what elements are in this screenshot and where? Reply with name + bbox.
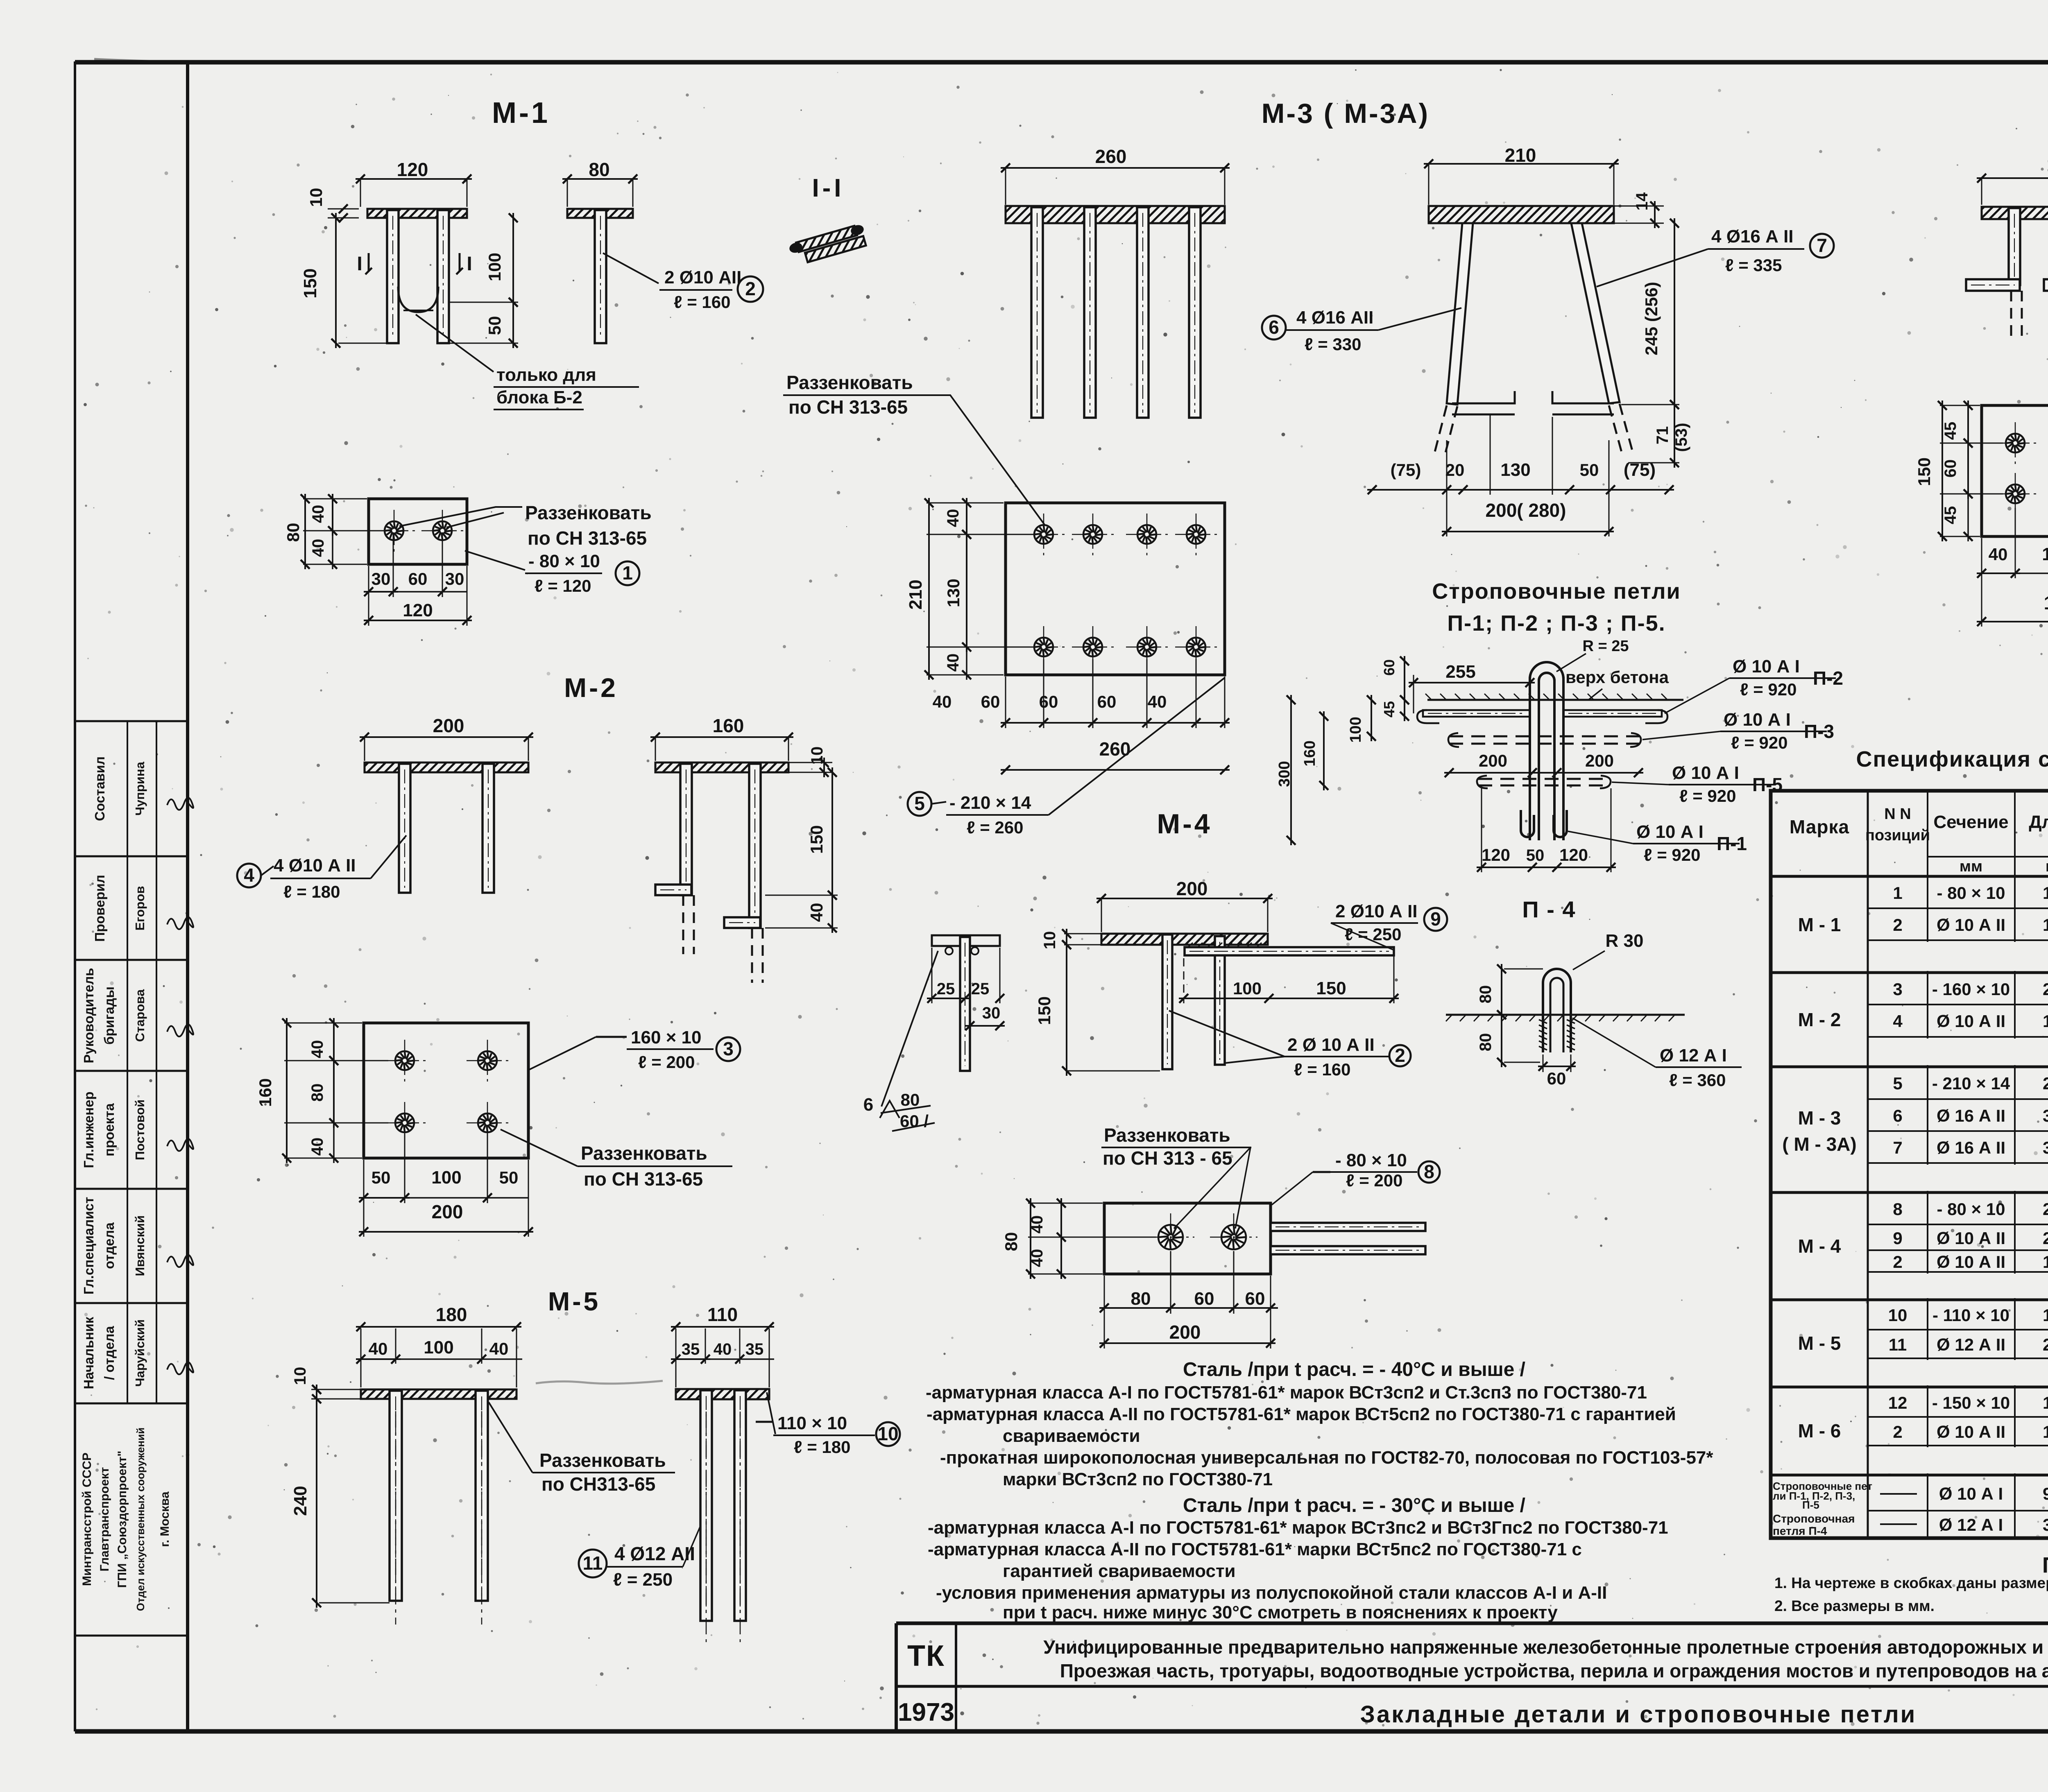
svg-text:60: 60 bbox=[1381, 659, 1398, 676]
svg-text:40: 40 bbox=[944, 509, 962, 527]
svg-text:40: 40 bbox=[933, 692, 952, 711]
svg-text:40: 40 bbox=[309, 539, 327, 557]
svg-text:ℓ = 335: ℓ = 335 bbox=[1725, 256, 1782, 275]
svg-text:12: 12 bbox=[1888, 1393, 1908, 1412]
svg-text:- 210 × 14: - 210 × 14 bbox=[1932, 1074, 2010, 1093]
svg-text:М - 3: М - 3 bbox=[1798, 1107, 1841, 1129]
svg-text:11: 11 bbox=[1889, 1335, 1907, 1354]
svg-text:Гл.специалист: Гл.специалист bbox=[81, 1197, 96, 1295]
svg-text:Ø 16 А II: Ø 16 А II bbox=[1937, 1106, 2005, 1125]
svg-text:1: 1 bbox=[1893, 883, 1902, 903]
svg-text:ℓ = 330: ℓ = 330 bbox=[1305, 335, 1361, 354]
svg-text:Раззенковать: Раззенковать bbox=[525, 502, 652, 523]
svg-text:25: 25 bbox=[971, 980, 990, 998]
svg-text:Сечение: Сечение bbox=[1933, 812, 2008, 832]
svg-text:60: 60 bbox=[408, 569, 428, 588]
svg-text:- 210 × 14: - 210 × 14 bbox=[949, 793, 1031, 813]
svg-text:80: 80 bbox=[283, 523, 303, 542]
svg-text:60: 60 bbox=[1942, 459, 1960, 478]
svg-text:Ø 12 А I: Ø 12 А I bbox=[1660, 1045, 1727, 1066]
svg-text:200: 200 bbox=[2043, 1199, 2048, 1219]
svg-text:2: 2 bbox=[1893, 1252, 1902, 1272]
svg-text:Проверил: Проверил bbox=[92, 875, 107, 942]
svg-text:160: 160 bbox=[2043, 915, 2048, 934]
svg-text:9: 9 bbox=[1430, 908, 1441, 930]
svg-text:40: 40 bbox=[1148, 692, 1167, 711]
svg-text:6: 6 bbox=[1893, 1106, 1902, 1125]
svg-text:100: 100 bbox=[2042, 544, 2048, 564]
svg-text:Раззенковать: Раззенковать bbox=[581, 1143, 707, 1164]
svg-text:R = 25: R = 25 bbox=[1582, 638, 1629, 655]
svg-text:Ø 10 А I: Ø 10 А I bbox=[1672, 763, 1739, 783]
svg-text:6: 6 bbox=[1269, 317, 1279, 338]
svg-text:Ø 10 А II: Ø 10 А II bbox=[1937, 915, 2005, 934]
svg-text:I: I bbox=[467, 253, 472, 275]
svg-text:бригады: бригады bbox=[102, 987, 117, 1045]
svg-text:40: 40 bbox=[807, 903, 826, 922]
svg-text:60: 60 bbox=[1097, 692, 1117, 711]
svg-text:Раззенковать: Раззенковать bbox=[539, 1450, 666, 1471]
svg-text:160: 160 bbox=[2043, 1252, 2048, 1272]
svg-text:330: 330 bbox=[2043, 1106, 2048, 1125]
svg-text:Строповочные петли: Строповочные петли bbox=[1432, 579, 1681, 604]
svg-text:50: 50 bbox=[499, 1168, 519, 1187]
svg-text:150: 150 bbox=[300, 268, 320, 298]
svg-text:150: 150 bbox=[807, 825, 826, 854]
svg-text:200: 200 bbox=[433, 715, 464, 736]
svg-text:мм: мм bbox=[1960, 858, 1982, 875]
svg-text:25: 25 bbox=[937, 980, 955, 998]
svg-text:40: 40 bbox=[714, 1340, 732, 1358]
svg-text:50: 50 bbox=[485, 316, 504, 335]
svg-text:Чуприна: Чуприна bbox=[133, 761, 147, 815]
svg-text:ℓ = 120: ℓ = 120 bbox=[535, 576, 591, 595]
svg-text:60: 60 bbox=[1194, 1289, 1214, 1309]
svg-text:160: 160 bbox=[256, 1078, 275, 1107]
svg-text:80: 80 bbox=[589, 159, 609, 180]
svg-text:200: 200 bbox=[1479, 751, 1507, 770]
svg-text:(75): (75) bbox=[1624, 460, 1656, 480]
svg-text:П - 4: П - 4 bbox=[1522, 896, 1576, 922]
svg-text:R 30: R 30 bbox=[1606, 931, 1644, 951]
svg-text:М - 5: М - 5 bbox=[1798, 1333, 1841, 1354]
svg-text:петля П-4: петля П-4 bbox=[1773, 1525, 1827, 1537]
svg-text:180: 180 bbox=[2043, 1393, 2048, 1412]
svg-text:60: 60 bbox=[1547, 1069, 1566, 1088]
svg-text:Ø 10 А II: Ø 10 А II bbox=[1937, 1229, 2005, 1248]
svg-text:М - 4: М - 4 bbox=[1798, 1235, 1841, 1257]
svg-text:50: 50 bbox=[1526, 846, 1545, 864]
svg-text:100: 100 bbox=[431, 1168, 461, 1188]
svg-text:45: 45 bbox=[1942, 422, 1960, 440]
svg-text:- 80 × 10: - 80 × 10 bbox=[1937, 1199, 2005, 1219]
svg-text:ГПИ „Союздорпроект": ГПИ „Союздорпроект" bbox=[116, 1450, 129, 1588]
svg-text:50: 50 bbox=[1580, 460, 1599, 480]
svg-text:71: 71 bbox=[1654, 426, 1672, 445]
svg-text:1: 1 bbox=[622, 562, 633, 584]
svg-text:10: 10 bbox=[306, 188, 326, 207]
svg-text:60 /: 60 / bbox=[900, 1111, 929, 1131]
svg-text:при t расч. ниже минус 30°: при t расч. ниже минус 30°С смотреть в п… bbox=[1003, 1602, 1558, 1622]
svg-text:35: 35 bbox=[682, 1340, 700, 1358]
svg-text:Егоров: Егоров bbox=[133, 886, 147, 930]
svg-text:- 80 × 10: - 80 × 10 bbox=[1335, 1150, 1407, 1170]
svg-text:Отдел искусственных сооружений: Отдел искусственных сооружений bbox=[134, 1428, 147, 1611]
svg-text:10: 10 bbox=[1888, 1306, 1908, 1325]
svg-text:1973: 1973 bbox=[898, 1698, 954, 1726]
svg-text:4: 4 bbox=[244, 864, 254, 886]
svg-text:ℓ = 160: ℓ = 160 bbox=[1294, 1060, 1350, 1079]
svg-text:по СН 313-65: по СН 313-65 bbox=[528, 527, 647, 549]
svg-text:Начальник: Начальник bbox=[81, 1317, 96, 1389]
svg-text:-арматурная класса А-I по: -арматурная класса А-I по ГОСТ5781-61* м… bbox=[928, 1518, 1668, 1538]
svg-text:только для: только для bbox=[496, 365, 596, 385]
svg-text:Унифицированные предварительн: Унифицированные предварительно напряженн… bbox=[1043, 1636, 2048, 1658]
svg-text:14: 14 bbox=[1633, 192, 1651, 210]
svg-text:Ø 10 А I: Ø 10 А I bbox=[1939, 1484, 2003, 1503]
svg-text:Строповочная: Строповочная bbox=[1773, 1512, 1855, 1525]
svg-text:Ø 10 А II: Ø 10 А II bbox=[1937, 1011, 2005, 1031]
svg-text:-условия применения арматуры: -условия применения арматуры из полуспок… bbox=[936, 1583, 1607, 1603]
svg-text:3: 3 bbox=[1893, 980, 1902, 999]
svg-text:мм: мм bbox=[2046, 858, 2048, 875]
svg-text:-арматурная класса А-I по: -арматурная класса А-I по ГОСТ5781-61* м… bbox=[926, 1382, 1647, 1403]
svg-text:200: 200 bbox=[1169, 1321, 1201, 1343]
svg-text:-прокатная широкополосная ун: -прокатная широкополосная универсальная … bbox=[940, 1448, 1713, 1468]
svg-text:120: 120 bbox=[397, 159, 428, 180]
svg-text:210: 210 bbox=[1505, 145, 1536, 166]
svg-text:ℓ = 250: ℓ = 250 bbox=[613, 1570, 673, 1590]
svg-text:2: 2 bbox=[1893, 915, 1902, 934]
svg-text:Ø 12 А II: Ø 12 А II bbox=[1937, 1335, 2005, 1354]
svg-text:Сталь /при t расч. = - 30°С: Сталь /при t расч. = - 30°С и выше / bbox=[1183, 1495, 1525, 1516]
svg-text:ℓ = 920: ℓ = 920 bbox=[1731, 733, 1787, 752]
svg-text:240: 240 bbox=[290, 1486, 310, 1516]
svg-text:180: 180 bbox=[2044, 592, 2048, 613]
svg-text:35: 35 bbox=[745, 1340, 764, 1358]
svg-text:блока Б-2: блока Б-2 bbox=[496, 387, 582, 407]
svg-text:200: 200 bbox=[1176, 878, 1208, 899]
svg-text:I-I: I-I bbox=[812, 174, 844, 202]
svg-text:45: 45 bbox=[1942, 506, 1960, 525]
svg-text:/ отдела: / отдела bbox=[102, 1326, 117, 1380]
svg-text:40: 40 bbox=[944, 654, 962, 672]
svg-text:40: 40 bbox=[489, 1339, 509, 1358]
svg-text:по СН313-65: по СН313-65 bbox=[541, 1473, 655, 1495]
svg-text:Главтранспроект: Главтранспроект bbox=[98, 1467, 111, 1572]
svg-text:150: 150 bbox=[1316, 978, 1346, 998]
svg-text:ℓ = 160: ℓ = 160 bbox=[674, 292, 730, 312]
svg-text:335: 335 bbox=[2043, 1138, 2048, 1157]
svg-text:М - 6: М - 6 bbox=[1798, 1420, 1841, 1441]
svg-text:8: 8 bbox=[1893, 1199, 1902, 1219]
svg-text:Спецификация стали на о: Спецификация стали на один элемент bbox=[1856, 747, 2048, 772]
svg-text:по СН 313-65: по СН 313-65 bbox=[584, 1168, 703, 1190]
svg-text:60: 60 bbox=[981, 692, 1000, 711]
svg-text:11: 11 bbox=[583, 1552, 603, 1574]
svg-text:110 × 10: 110 × 10 bbox=[777, 1413, 847, 1433]
svg-text:10: 10 bbox=[877, 1423, 898, 1444]
svg-text:-арматурная класса А-II по: -арматурная класса А-II по ГОСТ5781-61* … bbox=[927, 1404, 1676, 1424]
svg-text:4 Ø16 А II: 4 Ø16 А II bbox=[1711, 226, 1794, 247]
svg-text:верх бетона: верх бетона bbox=[1565, 667, 1669, 687]
svg-text:Руководитель: Руководитель bbox=[81, 968, 96, 1063]
svg-text:2. Все размеры в мм.: 2. Все размеры в мм. bbox=[1774, 1597, 1935, 1614]
svg-text:200: 200 bbox=[2043, 980, 2048, 999]
svg-text:110: 110 bbox=[707, 1304, 738, 1325]
svg-text:М - 2: М - 2 bbox=[1798, 1009, 1841, 1030]
svg-text:210: 210 bbox=[906, 579, 926, 609]
svg-text:260: 260 bbox=[1095, 146, 1127, 167]
svg-text:П-1; П-2 ; П-3 ; П-5.: П-1; П-2 ; П-3 ; П-5. bbox=[1447, 611, 1665, 636]
svg-text:Раззенковать: Раззенковать bbox=[1104, 1125, 1230, 1146]
svg-text:1. На чертеже в скобках д: 1. На чертеже в скобках даны размеры дет… bbox=[1774, 1575, 2048, 1591]
svg-text:100: 100 bbox=[485, 253, 504, 281]
svg-text:- 150 × 10: - 150 × 10 bbox=[1932, 1393, 2010, 1412]
svg-text:Закладные детали и стропо: Закладные детали и строповочные петли bbox=[1360, 1701, 1917, 1728]
svg-text:160: 160 bbox=[713, 715, 744, 736]
svg-text:10: 10 bbox=[291, 1367, 309, 1385]
svg-text:920: 920 bbox=[2043, 1484, 2048, 1503]
svg-text:80: 80 bbox=[901, 1090, 920, 1109]
svg-text:180: 180 bbox=[2047, 154, 2048, 175]
svg-text:2: 2 bbox=[1395, 1045, 1405, 1066]
svg-text:Ø 10 А II: Ø 10 А II bbox=[1937, 1422, 2005, 1441]
svg-text:160: 160 bbox=[1301, 740, 1319, 766]
svg-text:40: 40 bbox=[1989, 545, 2008, 564]
svg-text:360: 360 bbox=[2043, 1515, 2048, 1534]
svg-text:Сталь /при t расч. = - 40°С: Сталь /при t расч. = - 40°С и выше / bbox=[1183, 1359, 1525, 1380]
svg-text:Гл.инженер: Гл.инженер bbox=[81, 1091, 96, 1168]
svg-text:Ø 12 А I: Ø 12 А I bbox=[1939, 1515, 2003, 1534]
svg-text:80: 80 bbox=[1477, 985, 1495, 1004]
svg-text:Длина: Длина bbox=[2029, 812, 2048, 832]
svg-text:Старова: Старова bbox=[133, 989, 147, 1042]
svg-text:Проезжая часть, тротуары,: Проезжая часть, тротуары, водоотводные у… bbox=[1060, 1660, 2048, 1681]
svg-text:Примечания: Примечания bbox=[2042, 1553, 2048, 1577]
svg-text:6: 6 bbox=[863, 1095, 873, 1115]
svg-text:ℓ = 180: ℓ = 180 bbox=[794, 1437, 850, 1457]
svg-text:3: 3 bbox=[723, 1038, 734, 1059]
svg-text:ℓ = 180: ℓ = 180 bbox=[283, 882, 340, 901]
svg-text:( М - 3А): ( М - 3А) bbox=[1782, 1134, 1856, 1155]
svg-text:Ø 10 А I: Ø 10 А I bbox=[1724, 710, 1791, 730]
svg-text:80: 80 bbox=[1477, 1033, 1495, 1052]
svg-text:М-4: М-4 bbox=[1157, 808, 1212, 839]
svg-text:260: 260 bbox=[1099, 738, 1131, 760]
svg-text:120: 120 bbox=[1482, 845, 1510, 864]
svg-text:П-2: П-2 bbox=[1813, 667, 1843, 689]
svg-text:(75): (75) bbox=[1391, 460, 1421, 480]
svg-text:160 × 10: 160 × 10 bbox=[631, 1027, 702, 1048]
svg-text:7: 7 bbox=[1817, 235, 1827, 256]
svg-text:4: 4 bbox=[1893, 1011, 1903, 1031]
svg-text:М-5: М-5 bbox=[548, 1287, 600, 1316]
svg-text:20: 20 bbox=[1445, 460, 1465, 480]
svg-text:200: 200 bbox=[432, 1201, 463, 1222]
svg-text:40: 40 bbox=[309, 505, 327, 523]
svg-text:30: 30 bbox=[445, 569, 464, 588]
svg-text:8: 8 bbox=[1424, 1161, 1434, 1182]
svg-text:позиций: позиций bbox=[1865, 827, 1930, 844]
svg-text:ℓ = 920: ℓ = 920 bbox=[1679, 786, 1736, 805]
svg-text:180: 180 bbox=[2043, 1011, 2048, 1031]
svg-text:- 110 × 10: - 110 × 10 bbox=[1932, 1306, 2009, 1325]
svg-text:160: 160 bbox=[2043, 1422, 2048, 1441]
svg-text:130: 130 bbox=[1500, 460, 1530, 480]
svg-text:130: 130 bbox=[944, 579, 963, 607]
svg-text:I: I bbox=[357, 253, 362, 275]
svg-text:Марка: Марка bbox=[1790, 816, 1849, 837]
svg-text:9: 9 bbox=[1893, 1229, 1902, 1248]
svg-text:250: 250 bbox=[2043, 1229, 2048, 1248]
svg-text:Чаруйский: Чаруйский bbox=[133, 1319, 147, 1387]
svg-text:Ø 10 А I: Ø 10 А I bbox=[1733, 656, 1800, 677]
svg-text:4 Ø16 АII: 4 Ø16 АII bbox=[1296, 308, 1373, 328]
svg-text:180: 180 bbox=[2043, 1306, 2048, 1325]
svg-text:30: 30 bbox=[372, 569, 391, 588]
svg-text:150: 150 bbox=[1035, 996, 1054, 1025]
svg-text:Ø 10 А I: Ø 10 А I bbox=[1636, 822, 1704, 842]
svg-text:- 80 × 10: - 80 × 10 bbox=[1937, 883, 2005, 903]
svg-text:Составил: Составил bbox=[92, 756, 107, 821]
svg-text:2 Ø10 АII: 2 Ø10 АII bbox=[664, 267, 741, 287]
svg-text:245 (256): 245 (256) bbox=[1642, 282, 1661, 355]
svg-text:80: 80 bbox=[308, 1084, 326, 1102]
svg-text:4 Ø12 АII: 4 Ø12 АII bbox=[614, 1543, 695, 1564]
svg-text:ℓ = 920: ℓ = 920 bbox=[1740, 680, 1797, 699]
svg-text:120: 120 bbox=[1559, 845, 1588, 864]
svg-text:г. Москва: г. Москва bbox=[158, 1491, 172, 1547]
svg-text:ℓ = 260: ℓ = 260 bbox=[967, 818, 1023, 837]
svg-text:Ø 16 А II: Ø 16 А II bbox=[1937, 1138, 2005, 1157]
svg-text:120: 120 bbox=[2043, 883, 2048, 903]
svg-text:2: 2 bbox=[1893, 1422, 1902, 1441]
svg-text:по СН 313-65: по СН 313-65 bbox=[788, 396, 908, 418]
svg-text:180: 180 bbox=[436, 1304, 467, 1325]
svg-text:- 80 × 10: - 80 × 10 bbox=[528, 551, 600, 571]
svg-text:марки ВСт3сп2 по ГОСТ380-71: марки ВСт3сп2 по ГОСТ380-71 bbox=[1003, 1469, 1273, 1489]
svg-text:30: 30 bbox=[982, 1004, 1001, 1022]
svg-text:200( 280): 200( 280) bbox=[1486, 500, 1566, 521]
svg-text:120: 120 bbox=[403, 600, 433, 620]
svg-text:255: 255 bbox=[1445, 662, 1475, 682]
svg-text:10: 10 bbox=[1041, 931, 1059, 950]
svg-text:отдела: отдела bbox=[102, 1222, 117, 1269]
svg-text:Раззенковать: Раззенковать bbox=[786, 372, 913, 393]
svg-text:4 Ø10 А II: 4 Ø10 А II bbox=[274, 855, 356, 876]
svg-text:П-1: П-1 bbox=[1717, 833, 1747, 854]
svg-text:Минтрансстрой СССР: Минтрансстрой СССР bbox=[80, 1453, 94, 1586]
svg-text:свариваемости: свариваемости bbox=[1003, 1426, 1140, 1446]
svg-text:М - 1: М - 1 bbox=[1798, 914, 1841, 935]
svg-text:П-5: П-5 bbox=[1802, 1499, 1819, 1511]
svg-text:Ивянский: Ивянский bbox=[133, 1215, 147, 1276]
svg-text:40: 40 bbox=[308, 1138, 326, 1156]
svg-text:проекта: проекта bbox=[102, 1103, 117, 1156]
svg-text:П-3: П-3 bbox=[1804, 721, 1834, 742]
svg-text:250: 250 bbox=[2043, 1335, 2048, 1354]
svg-text:Постовой: Постовой bbox=[133, 1100, 147, 1160]
svg-text:ℓ = 200: ℓ = 200 bbox=[638, 1052, 695, 1072]
svg-text:ℓ = 360: ℓ = 360 bbox=[1669, 1070, 1726, 1090]
svg-text:5: 5 bbox=[914, 793, 925, 814]
svg-text:Ø 10 А II: Ø 10 А II bbox=[1937, 1252, 2005, 1272]
svg-text:50: 50 bbox=[372, 1168, 391, 1187]
svg-text:60: 60 bbox=[1039, 692, 1058, 711]
svg-text:ТК: ТК bbox=[907, 1640, 945, 1672]
svg-text:100: 100 bbox=[1347, 717, 1364, 742]
svg-text:М-1: М-1 bbox=[492, 97, 550, 129]
svg-text:40: 40 bbox=[369, 1339, 388, 1358]
svg-text:60: 60 bbox=[1245, 1289, 1265, 1309]
svg-text:2 Ø 10 А II: 2 Ø 10 А II bbox=[1287, 1035, 1375, 1055]
svg-text:ℓ = 920: ℓ = 920 bbox=[1644, 845, 1700, 864]
svg-text:100: 100 bbox=[1233, 979, 1262, 998]
svg-text:- 160 × 10: - 160 × 10 bbox=[1932, 980, 2010, 999]
svg-text:80: 80 bbox=[1001, 1232, 1021, 1251]
svg-text:260: 260 bbox=[2043, 1074, 2048, 1093]
svg-text:40: 40 bbox=[308, 1040, 326, 1059]
svg-text:по СН 313 - 65: по СН 313 - 65 bbox=[1103, 1147, 1232, 1169]
svg-text:М-3 ( М-3А): М-3 ( М-3А) bbox=[1262, 98, 1430, 129]
svg-text:5: 5 bbox=[1893, 1074, 1902, 1093]
svg-text:-арматурная класса А-II по: -арматурная класса А-II по ГОСТ5781-61* … bbox=[928, 1539, 1582, 1559]
svg-text:150: 150 bbox=[1914, 457, 1934, 486]
svg-text:45: 45 bbox=[1381, 701, 1398, 717]
svg-text:7: 7 bbox=[1893, 1138, 1902, 1157]
svg-text:100: 100 bbox=[424, 1337, 453, 1358]
svg-text:N N: N N bbox=[1884, 805, 1911, 823]
svg-text:М-2: М-2 bbox=[564, 672, 618, 703]
svg-text:2 Ø10 А II: 2 Ø10 А II bbox=[1335, 901, 1418, 921]
svg-text:гарантией свариваемости: гарантией свариваемости bbox=[1003, 1561, 1236, 1581]
svg-text:80: 80 bbox=[1131, 1289, 1151, 1309]
svg-text:ℓ = 200: ℓ = 200 bbox=[1346, 1171, 1402, 1190]
svg-text:200: 200 bbox=[1585, 751, 1614, 770]
svg-text:2: 2 bbox=[745, 278, 756, 299]
